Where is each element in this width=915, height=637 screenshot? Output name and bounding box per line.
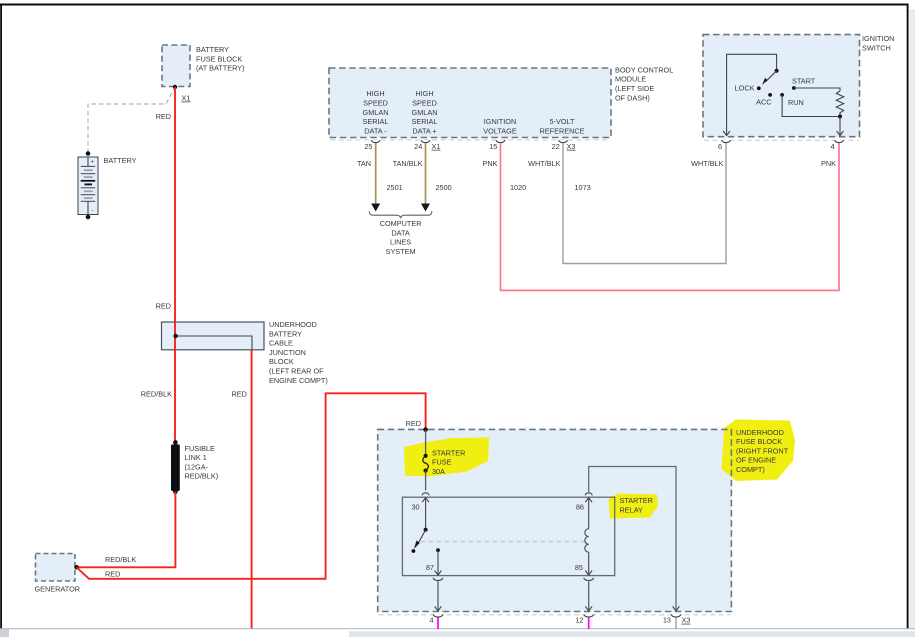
block pin 12 connector arc xyxy=(584,614,594,617)
battery bottom dot xyxy=(86,215,91,220)
generator terminal dot xyxy=(74,565,79,570)
svg-text:4: 4 xyxy=(830,142,834,151)
relay NO contact dot xyxy=(412,549,416,553)
battery plates xyxy=(81,166,96,201)
svg-text:WHT/BLK: WHT/BLK xyxy=(691,159,724,168)
wire pin 85 to block edge xyxy=(588,581,590,610)
svg-text:COMPT): COMPT) xyxy=(736,465,765,474)
svg-text:13: 13 xyxy=(663,616,671,625)
block pin 4 connector arc xyxy=(433,614,443,617)
relay pin 30 connector arc xyxy=(422,493,429,495)
svg-text:PNK: PNK xyxy=(821,159,836,168)
block pin 13 connector arc xyxy=(671,614,681,617)
svg-text:15: 15 xyxy=(489,142,497,151)
svg-text:25: 25 xyxy=(364,142,372,151)
wire RED generator to starter fuse xyxy=(77,393,426,579)
svg-text:(RIGHT FRONT: (RIGHT FRONT xyxy=(736,446,789,455)
page right border xyxy=(907,4,909,629)
generator box xyxy=(36,554,76,582)
right shadow strip xyxy=(909,9,915,628)
svg-text:1073: 1073 xyxy=(575,183,591,192)
battery center dark plates xyxy=(81,180,96,182)
svg-text:UNDERHOOD: UNDERHOOD xyxy=(736,428,784,437)
svg-text:(AT BATTERY): (AT BATTERY) xyxy=(196,64,245,73)
svg-text:(12GA-: (12GA- xyxy=(185,462,209,471)
svg-text:-: - xyxy=(92,209,94,215)
ignition switch wiper arm xyxy=(766,71,777,82)
relay pin 87 exit arc xyxy=(433,578,443,581)
battery fuse block box xyxy=(162,45,190,87)
svg-text:COMPUTER: COMPUTER xyxy=(380,219,422,228)
svg-text:X3: X3 xyxy=(682,616,691,625)
bottom separator line xyxy=(0,628,915,630)
arrow at pin 4 inside xyxy=(837,131,844,136)
BCM pin 15 connector arc xyxy=(496,140,505,142)
svg-text:LOCK: LOCK xyxy=(735,84,755,93)
terminal X1 dot xyxy=(173,85,177,89)
underhood block connector face dashed line xyxy=(379,614,731,616)
junction block splice dot xyxy=(173,334,177,338)
svg-text:SPEED: SPEED xyxy=(363,99,388,108)
svg-text:30: 30 xyxy=(412,503,420,512)
BCM connector face dashed line xyxy=(330,139,611,141)
arrow at pin 6 inside xyxy=(723,131,730,136)
relay contact arrowhead xyxy=(414,540,420,549)
svg-text:GMLAN: GMLAN xyxy=(412,108,438,117)
wire TAN pin 25 xyxy=(375,143,377,204)
svg-text:IGNITION: IGNITION xyxy=(484,117,516,126)
ignition switch feed wire xyxy=(727,54,777,135)
arrow into relay pin 30 xyxy=(422,498,429,503)
fusible link top dot xyxy=(173,440,178,445)
starter fuse top dot xyxy=(424,454,428,458)
svg-text:RED: RED xyxy=(232,389,247,398)
wire PNK BCM pin 15 to ignition switch pin 4 xyxy=(501,142,840,290)
relay coil feed wire from top xyxy=(588,498,590,529)
battery top dot xyxy=(86,151,91,156)
svg-text:IGNITION: IGNITION xyxy=(862,34,894,43)
svg-text:BATTERY: BATTERY xyxy=(269,329,302,338)
svg-text:RED: RED xyxy=(105,570,120,579)
svg-text:+: + xyxy=(91,160,95,166)
relay movable contact arm xyxy=(418,530,426,545)
svg-text:ACC: ACC xyxy=(756,98,771,107)
wire junction to pin 4 xyxy=(839,117,841,135)
svg-text:STARTER: STARTER xyxy=(432,448,465,457)
wire entry to fuse xyxy=(425,430,427,456)
wire RED/BLK fusible link to generator xyxy=(77,492,176,568)
relay output contact dot xyxy=(436,548,440,552)
svg-text:STARTER: STARTER xyxy=(620,496,653,505)
svg-text:12: 12 xyxy=(575,616,583,625)
svg-text:REFERENCE: REFERENCE xyxy=(539,126,584,135)
BCM pin 22 connector arc xyxy=(559,140,568,142)
svg-text:BODY CONTROL: BODY CONTROL xyxy=(615,65,673,74)
relay pin 86 connector arc xyxy=(585,493,592,495)
svg-text:GENERATOR: GENERATOR xyxy=(35,585,81,594)
svg-text:DATA +: DATA + xyxy=(412,126,436,135)
svg-text:RED: RED xyxy=(156,302,171,311)
starter relay box xyxy=(402,497,614,575)
wire red through junction block xyxy=(174,322,176,350)
svg-text:BLOCK: BLOCK xyxy=(269,357,294,366)
svg-text:4: 4 xyxy=(429,616,433,625)
svg-text:SERIAL: SERIAL xyxy=(412,117,438,126)
arrow TAN/BLK wire xyxy=(421,204,430,212)
resistor zigzag xyxy=(836,91,843,117)
magenta wire stub pin 4 xyxy=(437,618,439,630)
svg-text:TAN/BLK: TAN/BLK xyxy=(393,159,423,168)
wire TAN/BLK pin 24 xyxy=(425,143,427,204)
page left border xyxy=(0,4,2,629)
ignition pin 4 connector arc xyxy=(835,140,844,142)
svg-text:1020: 1020 xyxy=(510,183,526,192)
contact START dot xyxy=(792,86,796,90)
wire WHT/BLK BCM pin 22 to ignition switch pin 6 xyxy=(563,142,726,263)
arrow into relay pin 86 xyxy=(585,498,592,503)
svg-text:RED: RED xyxy=(406,419,421,428)
svg-text:CABLE: CABLE xyxy=(269,339,293,348)
underhood fuse block box fill xyxy=(378,429,732,611)
svg-text:22: 22 xyxy=(552,142,560,151)
arrow at pin 13 xyxy=(673,606,680,611)
svg-text:START: START xyxy=(792,77,816,86)
svg-text:JUNCTION: JUNCTION xyxy=(269,348,306,357)
svg-text:RUN: RUN xyxy=(788,98,804,107)
svg-text:2500: 2500 xyxy=(436,183,452,192)
svg-text:ENGINE COMPT): ENGINE COMPT) xyxy=(269,376,328,385)
svg-text:RED/BLK): RED/BLK) xyxy=(185,472,219,481)
svg-text:(LEFT SIDE: (LEFT SIDE xyxy=(615,84,654,93)
contact LOCK dot xyxy=(757,86,761,90)
highlight starter fuse xyxy=(404,438,489,477)
svg-text:FUSE: FUSE xyxy=(432,458,452,467)
svg-text:HIGH: HIGH xyxy=(415,89,433,98)
magenta wire stub pin 12 xyxy=(588,618,590,630)
arrow at block pin 4 xyxy=(435,606,442,611)
brace computer data lines xyxy=(369,211,432,218)
wire RED/BLK junction block to fusible link xyxy=(174,350,176,442)
svg-text:SERIAL: SERIAL xyxy=(363,117,389,126)
ignition pin 6 connector arc xyxy=(722,140,731,142)
svg-text:BATTERY: BATTERY xyxy=(196,45,229,54)
starter fuse element xyxy=(423,456,429,471)
wire pin 87 to block edge xyxy=(437,581,439,610)
svg-text:X1: X1 xyxy=(182,94,191,103)
svg-text:PNK: PNK xyxy=(482,159,497,168)
battery bottom stub xyxy=(87,201,89,214)
svg-text:86: 86 xyxy=(576,503,584,512)
underhood battery cable junction block box xyxy=(162,322,265,350)
svg-text:OF DASH): OF DASH) xyxy=(615,93,650,102)
wire RED from X1 down to junction block xyxy=(174,87,176,322)
svg-text:RELAY: RELAY xyxy=(620,506,644,515)
ignition switch pivot dot xyxy=(775,69,779,73)
svg-text:DATA: DATA xyxy=(391,228,410,237)
svg-text:2501: 2501 xyxy=(387,183,403,192)
starter fuse bottom dot xyxy=(424,469,428,473)
splice dot at fuse block entry xyxy=(423,427,428,432)
bottom band xyxy=(349,631,915,637)
arrow TAN wire xyxy=(371,204,380,212)
svg-text:MODULE: MODULE xyxy=(615,75,646,84)
svg-text:X1: X1 xyxy=(432,142,441,151)
svg-text:FUSE BLOCK: FUSE BLOCK xyxy=(736,437,782,446)
relay contact pivot dot xyxy=(424,528,428,532)
wiper arrowhead xyxy=(762,78,767,86)
gray wire stub pin 13 xyxy=(675,618,677,630)
dashed wire battery to fuse block xyxy=(88,90,174,154)
ignition switch box xyxy=(703,35,860,137)
relay pin 85 exit arc xyxy=(584,578,594,581)
svg-text:LINK 1: LINK 1 xyxy=(185,453,207,462)
BCM pin 25 connector arc xyxy=(371,140,380,142)
svg-text:VOLTAGE: VOLTAGE xyxy=(483,126,517,135)
battery top stub xyxy=(87,157,89,166)
svg-text:87: 87 xyxy=(426,563,434,572)
underhood fuse block box border xyxy=(378,429,732,611)
contact ACC dot xyxy=(768,93,772,97)
svg-text:FUSE BLOCK: FUSE BLOCK xyxy=(196,54,242,63)
fusible link 1 body xyxy=(171,444,180,491)
bottom left gray square xyxy=(0,629,9,637)
highlight underhood fuse block label xyxy=(722,420,796,482)
highlight starter relay xyxy=(609,494,659,519)
wire coil to pin 85 xyxy=(588,552,590,575)
svg-text:DATA -: DATA - xyxy=(364,126,387,135)
svg-text:(LEFT REAR OF: (LEFT REAR OF xyxy=(269,367,324,376)
arrow at pin 85 xyxy=(585,571,592,576)
svg-text:SPEED: SPEED xyxy=(412,99,437,108)
fusible link bottom dot xyxy=(173,490,178,495)
svg-text:X3: X3 xyxy=(567,142,576,151)
ignition connector face dashed line xyxy=(704,139,859,141)
junction block internal bus xyxy=(176,336,252,350)
wire fuse to relay pin 30 xyxy=(425,471,427,491)
battery box xyxy=(78,157,98,215)
arrow at block pin 12 xyxy=(585,606,592,611)
BCM pin 24 connector arc xyxy=(421,140,430,142)
wire pin 30 to contact xyxy=(425,498,427,530)
svg-text:RED: RED xyxy=(156,112,171,121)
svg-text:FUSIBLE: FUSIBLE xyxy=(185,444,216,453)
wire contact to pin 87 xyxy=(437,550,439,575)
svg-text:UNDERHOOD: UNDERHOOD xyxy=(269,320,317,329)
svg-text:SWITCH: SWITCH xyxy=(862,44,891,53)
svg-text:GMLAN: GMLAN xyxy=(363,108,389,117)
wire RED junction block down to bottom xyxy=(251,350,253,628)
wire pin 86 up and over to pin 13 xyxy=(589,467,676,611)
svg-text:LINES: LINES xyxy=(390,238,411,247)
svg-text:HIGH: HIGH xyxy=(366,89,384,98)
svg-text:30A: 30A xyxy=(432,467,445,476)
svg-text:BATTERY: BATTERY xyxy=(104,156,137,165)
svg-text:WHT/BLK: WHT/BLK xyxy=(528,159,561,168)
body control module box xyxy=(329,68,611,138)
svg-text:RED/BLK: RED/BLK xyxy=(141,389,172,398)
svg-text:6: 6 xyxy=(718,142,722,151)
svg-text:SYSTEM: SYSTEM xyxy=(386,247,416,256)
svg-text:OF ENGINE: OF ENGINE xyxy=(736,456,776,465)
wire START to resistor xyxy=(794,88,840,91)
svg-text:24: 24 xyxy=(414,142,422,151)
svg-text:85: 85 xyxy=(575,563,583,572)
resistor bottom junction dot xyxy=(838,115,842,119)
svg-text:TAN: TAN xyxy=(357,159,371,168)
contact RUN dot xyxy=(780,93,784,97)
page top border xyxy=(0,4,908,6)
arrow at pin 87 xyxy=(435,571,442,576)
svg-text:RED/BLK: RED/BLK xyxy=(105,555,136,564)
wire RUN to junction xyxy=(782,95,840,117)
svg-text:5-VOLT: 5-VOLT xyxy=(549,117,575,126)
relay coil xyxy=(585,529,589,552)
relay armature dashed link xyxy=(421,541,588,543)
